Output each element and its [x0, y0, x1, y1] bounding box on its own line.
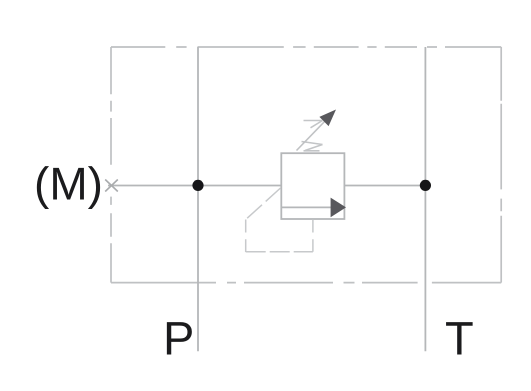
valve body box U1 [281, 153, 344, 219]
adjustment arrowhead [319, 110, 336, 127]
adjustment arrow shaft [297, 119, 328, 151]
pilot drain diagonal dashed [246, 188, 281, 219]
pilot drain bottom horizontal dashed [246, 251, 313, 253]
svg-text:P: P [163, 312, 194, 365]
wire valve to T junction [344, 185, 425, 187]
wire main horizontal (M) to valve [108, 185, 281, 187]
wire P vertical port line [197, 47, 199, 351]
wire T vertical port line [424, 47, 426, 351]
junction dot at T line [420, 180, 431, 191]
flow path line inside valve [281, 206, 332, 208]
test point X at (M) [105, 180, 118, 192]
spring (zigzag) [302, 121, 323, 151]
pilot drain right vertical dashed [312, 220, 314, 252]
pilot drain left vertical dashed [245, 220, 247, 253]
flow arrowhead [331, 198, 346, 218]
svg-text:(M): (M) [34, 158, 103, 210]
enclosure border (dash-dot manifold outline) [111, 47, 501, 283]
junction dot at P line [192, 180, 203, 191]
svg-text:T: T [445, 312, 474, 365]
